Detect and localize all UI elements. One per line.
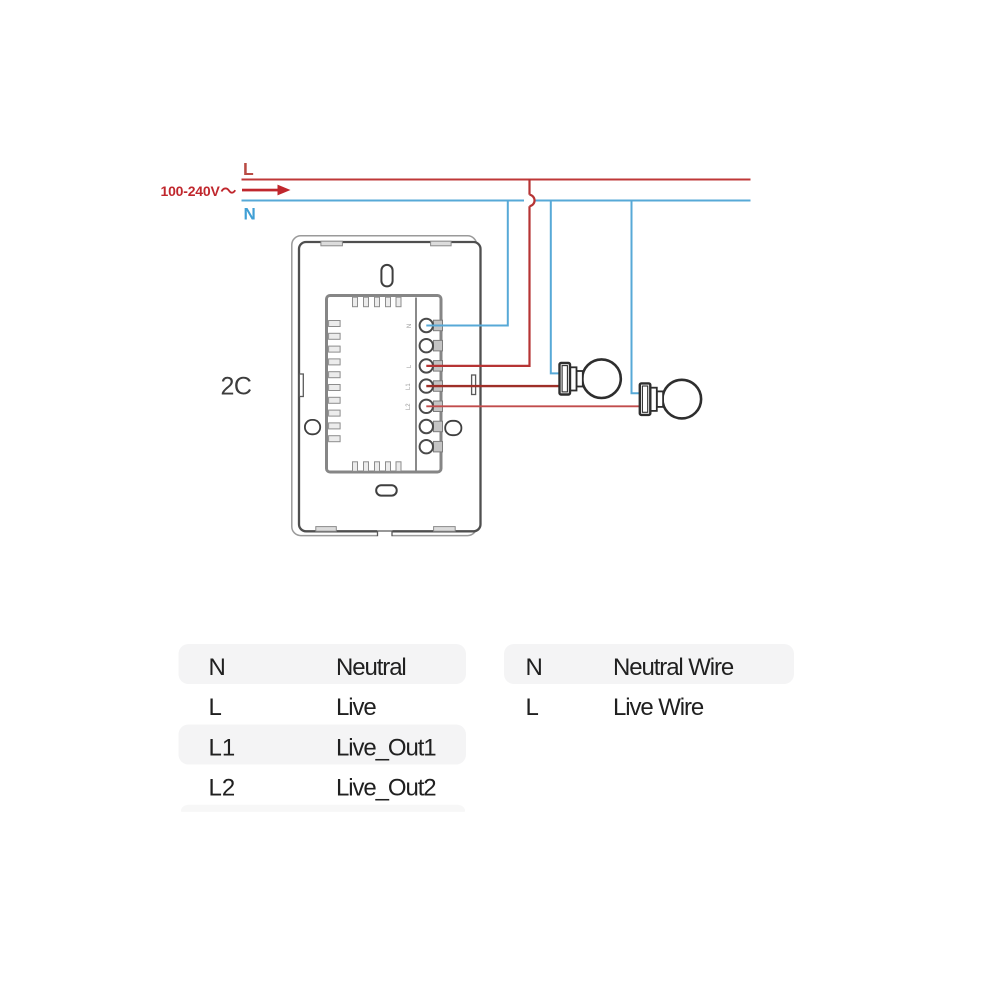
switch plate inner frame	[299, 242, 481, 531]
svg-text:L1: L1	[209, 735, 236, 762]
legend right table row 1 background	[504, 644, 794, 684]
svg-text:L1: L1	[406, 383, 412, 390]
svg-text:L: L	[243, 159, 254, 179]
svg-text:Live_Out2: Live_Out2	[336, 775, 436, 802]
bracket bottom comb	[353, 462, 402, 472]
svg-text:N: N	[209, 654, 226, 681]
wire neutral to lamp 1	[551, 201, 561, 374]
terminal block right teeth	[434, 320, 443, 452]
svg-text:L: L	[526, 694, 539, 721]
switch plate outer frame	[292, 236, 477, 536]
legend text right table	[526, 654, 734, 721]
lamp 1 (bulb)	[560, 359, 621, 398]
svg-text:100-240V: 100-240V	[161, 183, 221, 199]
svg-text:2C: 2C	[221, 373, 252, 401]
terminal screw 7	[420, 440, 433, 453]
terminal screw 6	[420, 420, 433, 433]
plate bottom oval hole	[376, 485, 397, 495]
plate left screw oval	[305, 420, 320, 434]
svg-text:Live_Out1: Live_Out1	[336, 735, 436, 762]
svg-text:N: N	[407, 324, 413, 328]
terminal screw 1 (N)	[420, 319, 433, 332]
legend left table row 3 background	[179, 725, 467, 765]
plate bottom clip right	[434, 527, 456, 532]
bracket divider line	[415, 298, 417, 471]
wire neutral to terminal N	[426, 201, 508, 326]
svg-text:N: N	[526, 654, 543, 681]
svg-text:L2: L2	[406, 403, 412, 410]
svg-text:L: L	[209, 694, 222, 721]
wire L1 to lamp 1	[426, 385, 560, 387]
terminal screw 4 (L1)	[420, 379, 433, 392]
terminal screw 5 (L2)	[420, 400, 433, 413]
svg-text:Live Wire: Live Wire	[613, 694, 704, 721]
plate left side clip	[299, 374, 303, 397]
supply arrow	[242, 185, 291, 196]
plate right screw oval	[445, 421, 461, 435]
svg-text:Neutral Wire: Neutral Wire	[613, 654, 734, 681]
wire live drop with hop	[426, 179, 534, 366]
svg-text:Live: Live	[336, 694, 376, 721]
lamp 2 (bulb)	[640, 380, 701, 419]
legend left table row 5 sliver	[175, 805, 471, 820]
wire L2 to lamp 2	[426, 405, 640, 407]
wire neutral to lamp 2	[632, 201, 641, 394]
terminal screw 3 (L)	[420, 359, 433, 372]
wire N bus (blue neutral line)	[242, 200, 751, 202]
plate bottom clip left	[316, 527, 337, 532]
plate right side clip	[472, 375, 476, 395]
bracket left comb	[329, 321, 341, 442]
plate top clip right	[431, 241, 452, 246]
plate bottom centre notch	[377, 528, 393, 538]
bracket top comb	[353, 297, 402, 307]
svg-text:L2: L2	[209, 775, 236, 802]
svg-text:N: N	[244, 205, 256, 224]
legend left table row 1 background	[179, 644, 467, 684]
legend text left table	[209, 654, 437, 802]
plate top oval hole	[381, 265, 392, 287]
wire L bus (red live line)	[242, 179, 751, 181]
svg-text:Neutral: Neutral	[336, 654, 406, 681]
mounting bracket frame	[327, 296, 442, 473]
terminal screw 2	[420, 339, 433, 352]
plate top clip left	[321, 241, 343, 246]
